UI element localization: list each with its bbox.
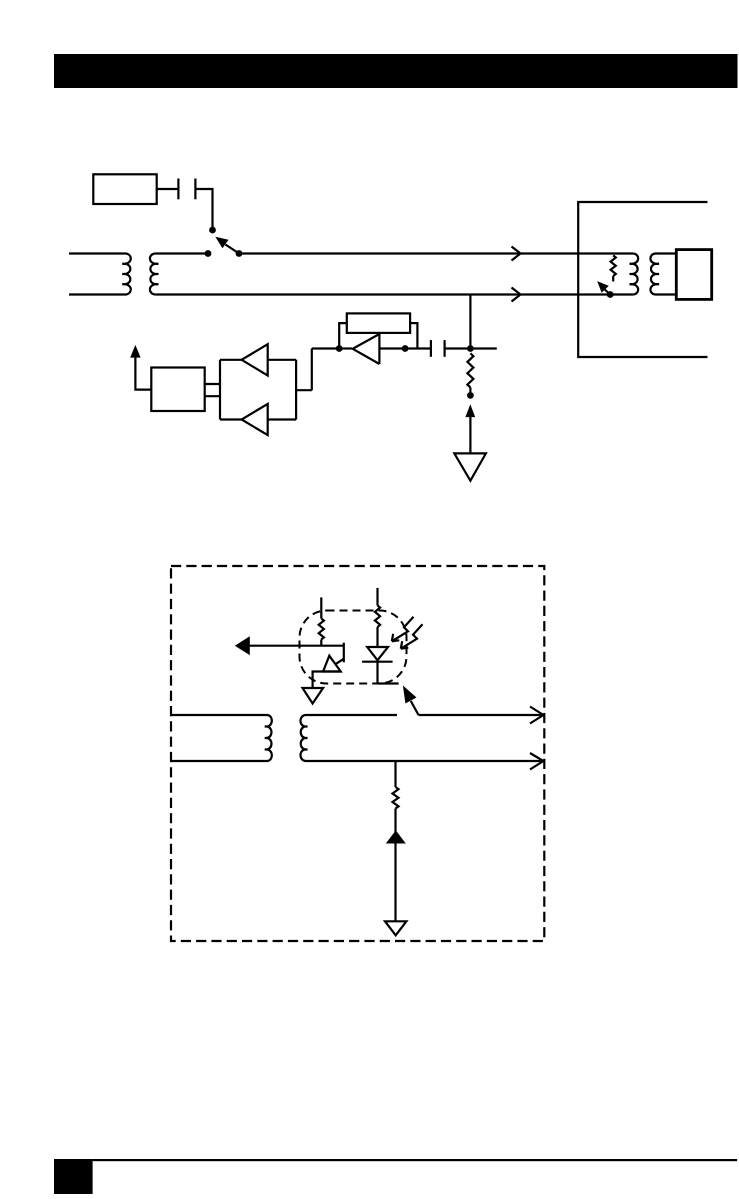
wire box to capacitor: [157, 188, 179, 190]
ground arrow up: [394, 818, 396, 921]
transformer T1 secondary winding top lead: [150, 254, 208, 295]
resistor R4: [375, 605, 380, 627]
transformer T3 primary winding: [171, 715, 272, 761]
heat coil lead: [335, 659, 344, 665]
transformer T2 secondary winding: [650, 254, 676, 295]
amplifier A1 (upper): [242, 344, 268, 375]
resistor R5: [393, 787, 399, 809]
wire heat coil to ground: [313, 672, 341, 688]
capacitor C2 right plate: [444, 340, 446, 357]
wire triangle to capacitor: [379, 347, 431, 349]
surge bolt 2: [401, 624, 423, 649]
wire ring drop to resistor: [394, 761, 396, 787]
wire ring line (bottom) T1 to T2: [155, 293, 633, 295]
hybrid box: [151, 368, 204, 412]
balance resistor tail: [612, 276, 614, 282]
resistor R5 tail: [394, 809, 396, 819]
receiver load box: [676, 250, 711, 300]
wire resistor tail: [469, 388, 471, 393]
resistor R4 tail: [376, 627, 378, 647]
heat coil triangle: [323, 656, 341, 672]
ground symbol G1: [454, 453, 486, 480]
protector blade arrowhead: [403, 686, 417, 704]
wire capacitor to switch contact: [195, 189, 212, 227]
diode lead down: [376, 662, 378, 683]
resistor R3 tail: [320, 640, 322, 646]
footer page tab: [54, 1159, 93, 1194]
spark gap arrowhead: [465, 404, 475, 417]
sneak current arrow line: [247, 645, 344, 647]
amplifier A2 (lower): [242, 404, 268, 435]
spark gap arrow up: [469, 415, 471, 453]
capacitor C1 left plate: [177, 179, 179, 200]
heat coil bar: [343, 643, 345, 663]
adjust arrow dot: [607, 291, 614, 298]
wire ring line drop: [469, 295, 471, 349]
balance resistor (T2): [611, 255, 616, 276]
wire capacitor to junction stub: [445, 347, 497, 349]
varistor triangle: [353, 334, 380, 364]
left branch lead: [320, 597, 322, 618]
wire dot up to resistor: [339, 323, 347, 348]
wire amplifier outputs join: [268, 349, 336, 420]
switch S1 upper contact dot: [209, 227, 216, 234]
wire tip line (top) switch to T2: [239, 252, 633, 254]
switch S1 blade arrowhead: [215, 237, 228, 249]
component box (ringer network): [93, 174, 156, 204]
adjust arrowhead: [597, 281, 609, 293]
wire hybrid to amplifiers: [205, 360, 242, 420]
dashed oval (protector detail): [300, 611, 407, 684]
network boundary bracket: [578, 202, 707, 357]
receive arrowhead: [130, 345, 140, 358]
transformer T2 primary winding: [630, 254, 639, 295]
right branch lead: [376, 588, 378, 606]
ground symbol G2: [385, 921, 406, 935]
carbon block stub: [378, 682, 399, 684]
surge bolt 1: [392, 617, 414, 642]
header bar: [54, 54, 738, 88]
protector switch blade line: [411, 701, 543, 715]
node dot (varistor input): [336, 345, 343, 352]
wire dot to varistor tip: [339, 347, 352, 349]
node dot above arrow: [467, 392, 474, 399]
ground symbol G3: [303, 688, 324, 704]
receive arrow (to handset): [135, 352, 151, 390]
protector diode D1 cathode bar: [362, 661, 393, 663]
ground arrowhead: [386, 830, 406, 843]
tip line direction arrow: [512, 247, 521, 261]
secondary bottom line arrow: [530, 753, 543, 770]
capacitor C2 left plate: [430, 340, 432, 357]
switch S1 right contact dot: [236, 250, 243, 257]
sneak current arrowhead: [235, 636, 250, 655]
adjust arrow blade: [605, 290, 610, 295]
ring line direction arrow: [512, 288, 521, 302]
wire resistor right leg: [410, 323, 417, 348]
transformer T3 secondary winding: [300, 715, 542, 761]
footer rule: [93, 1159, 738, 1161]
switch S1 left contact dot: [205, 250, 212, 257]
resistor R2 (to ground): [467, 353, 473, 387]
node dot (pad output): [402, 345, 409, 352]
secondary top line arrow: [530, 707, 543, 724]
transformer T1 primary winding: [69, 254, 131, 295]
junction dot: [467, 345, 474, 352]
capacitor C1 right plate: [194, 179, 196, 200]
protector diode D1: [367, 647, 388, 660]
switch S1 blade: [226, 245, 240, 254]
resistor R3: [319, 619, 324, 640]
resistor R1 (pad): [347, 313, 410, 333]
dashed enclosure (protector module): [171, 566, 544, 941]
